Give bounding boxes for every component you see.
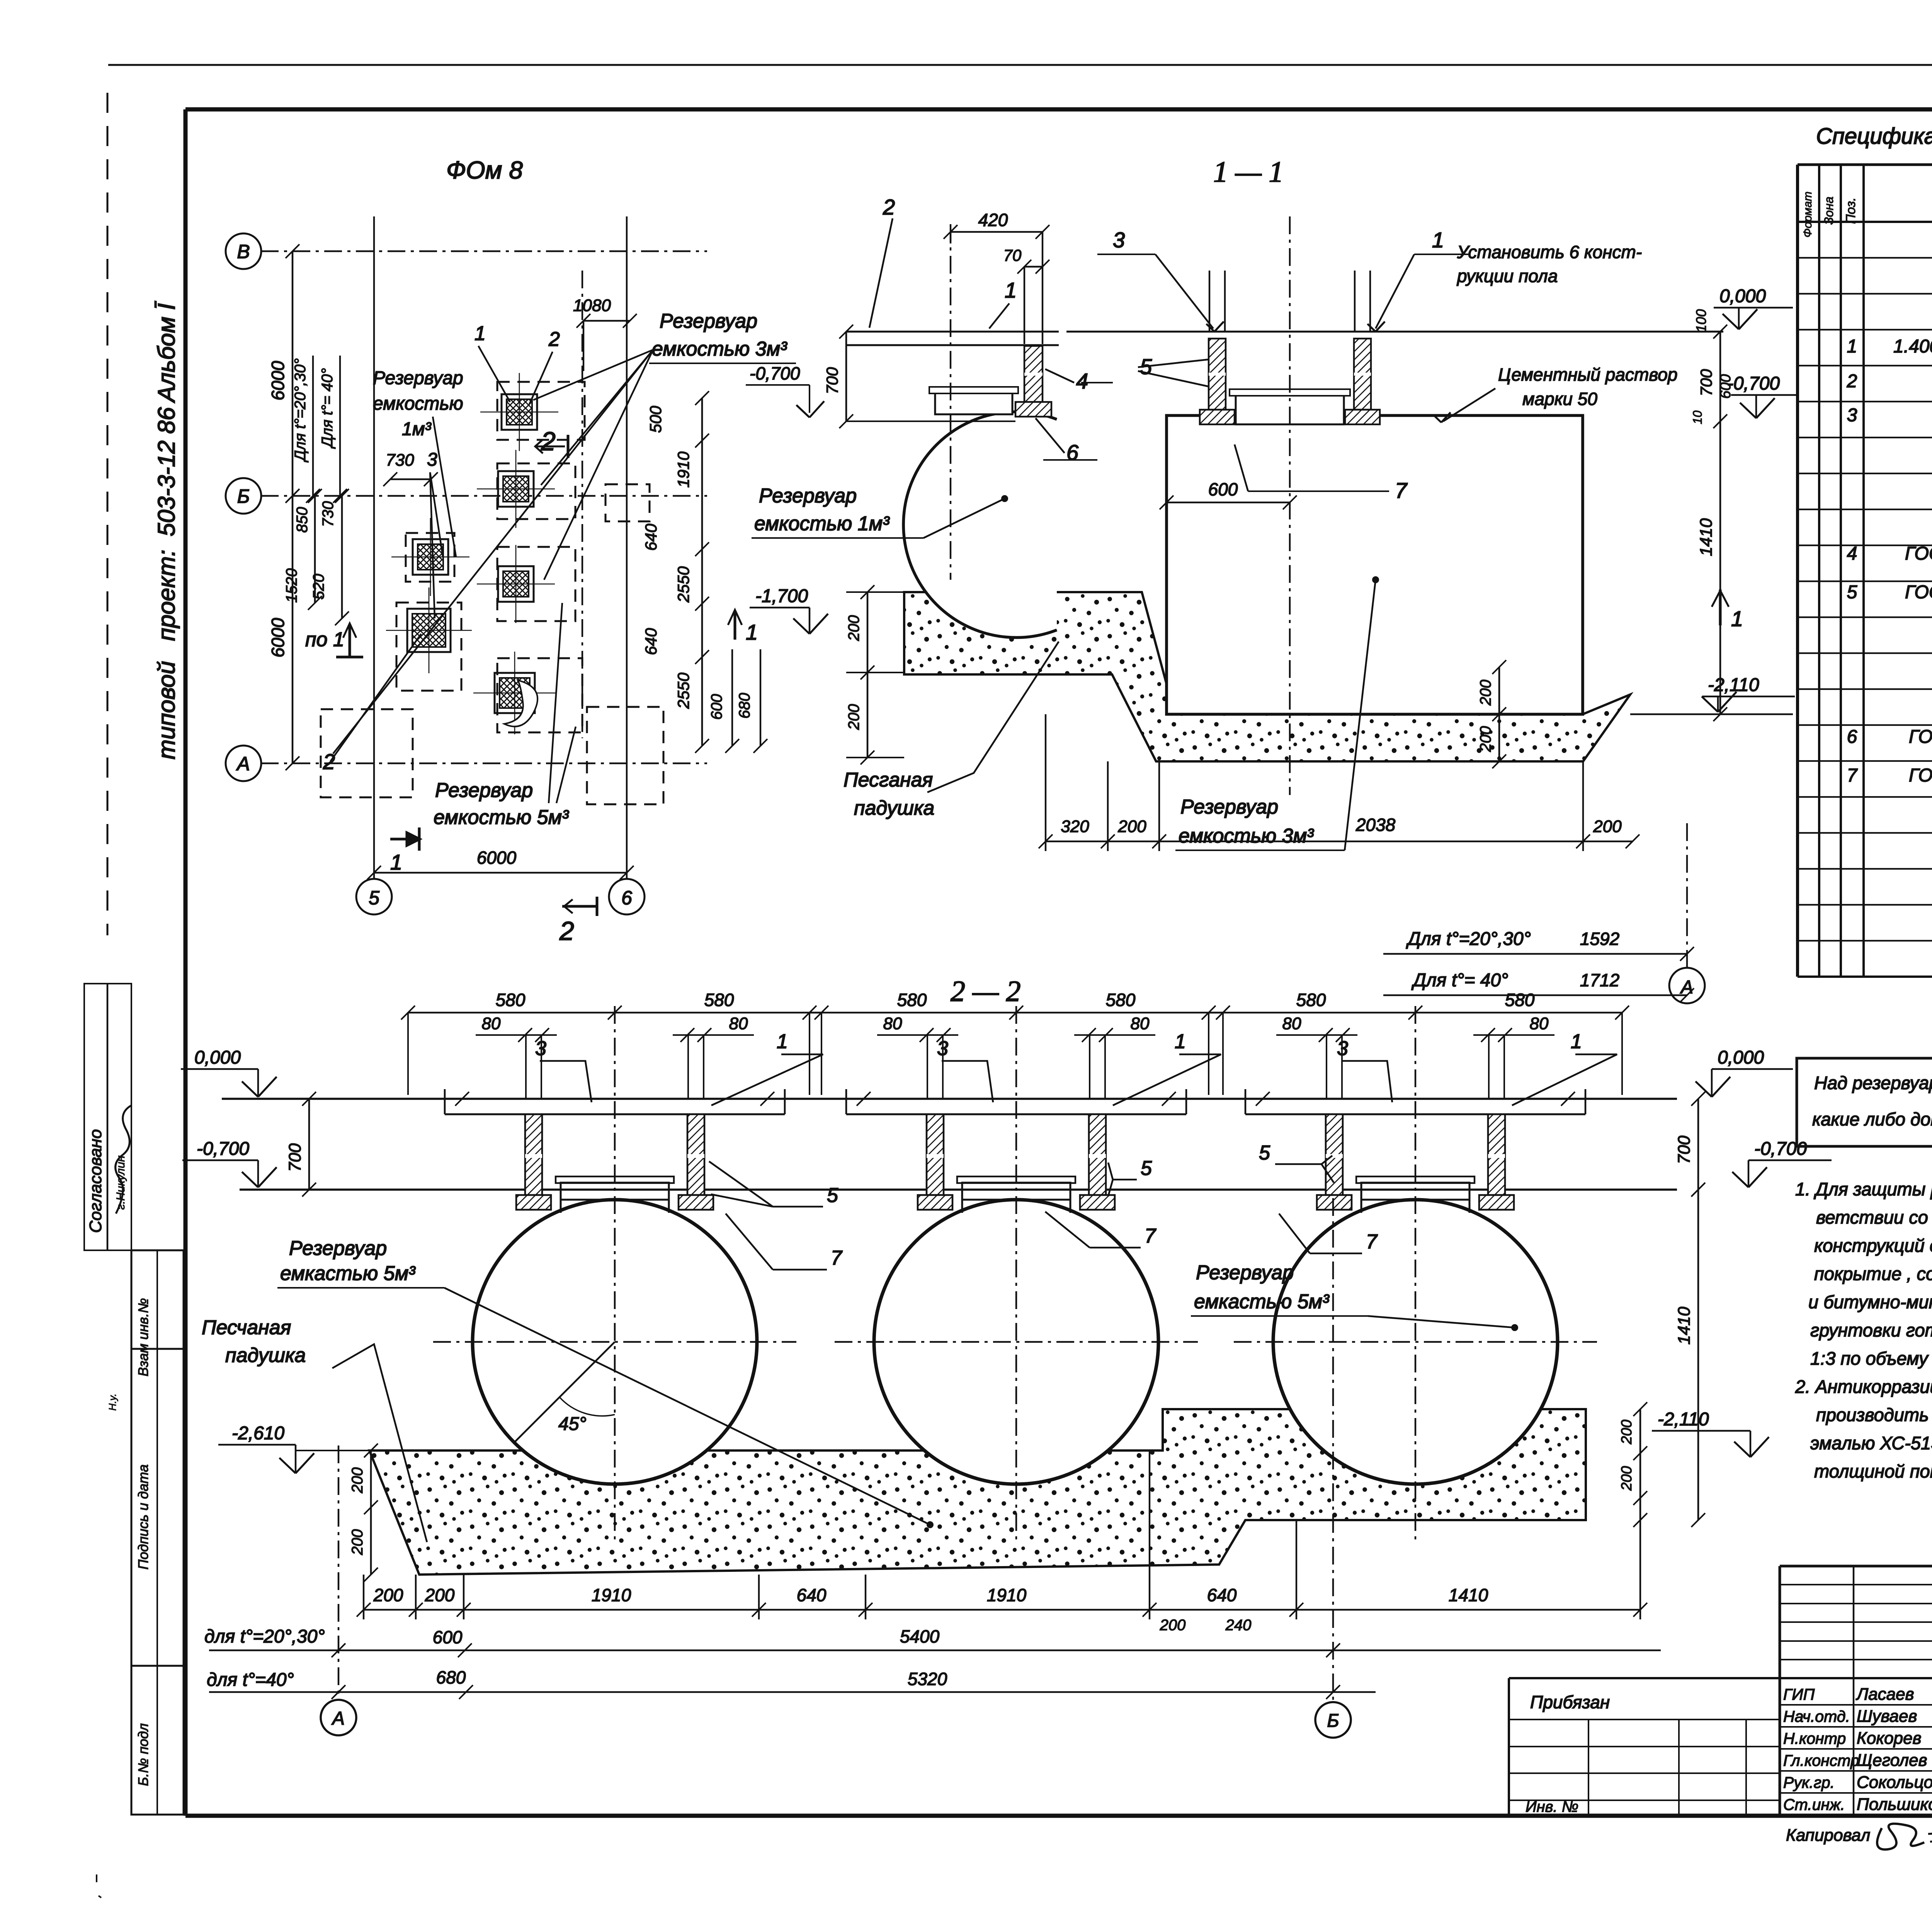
svg-text:850: 850 [294, 507, 311, 533]
svg-text:ГОСТ 8020 - 80: ГОСТ 8020 - 80 [1909, 765, 1932, 786]
svg-text:2: 2 [1847, 371, 1857, 392]
svg-text:5: 5 [369, 887, 379, 909]
svg-text:80: 80 [1530, 1014, 1549, 1033]
svg-text:Польшиков: Польшиков [1857, 1795, 1932, 1814]
svg-text:эмалью ХС-5132 (ТУ6-10-11-19-: эмалью ХС-5132 (ТУ6-10-11-19-12-79) в 3с… [1810, 1433, 1932, 1453]
svg-text:Н.контр: Н.контр [1783, 1730, 1846, 1747]
svg-text:-0,700: -0,700 [1727, 373, 1780, 394]
svg-text:2: 2 [541, 427, 556, 456]
svg-text:1592: 1592 [1580, 929, 1619, 949]
svg-text:-1,700: -1,700 [755, 586, 808, 606]
svg-text:и битумно-минеральной мастик: и битумно-минеральной мастики толщиной 3… [1808, 1292, 1932, 1312]
svg-text:Над резервуаром. установленн: Над резервуаром. установленным под земле… [1814, 1073, 1932, 1093]
svg-text:Взам инв.№: Взам инв.№ [135, 1298, 151, 1377]
svg-text:Резервуар: Резервуар [660, 310, 757, 332]
svg-text:Для t°=20°,30°: Для t°=20°,30° [1406, 929, 1531, 949]
svg-text:580: 580 [496, 990, 526, 1010]
svg-text:емкостью: емкостью [373, 393, 463, 414]
svg-text:1. Для защиты резервуаров о: 1. Для защиты резервуаров от подземной к… [1795, 1179, 1932, 1199]
svg-text:1: 1 [390, 850, 402, 874]
svg-text:3: 3 [1847, 405, 1857, 426]
svg-text:2 — 2: 2 — 2 [951, 975, 1021, 1008]
svg-text:емкастью 5м³: емкастью 5м³ [1194, 1290, 1330, 1313]
svg-text:В: В [237, 241, 250, 262]
svg-text:580: 580 [1106, 990, 1136, 1010]
svg-text:2550: 2550 [674, 566, 692, 603]
svg-text:Альбом Ī: Альбом Ī [153, 301, 180, 403]
svg-text:80: 80 [1282, 1014, 1301, 1033]
svg-text:200: 200 [1619, 1466, 1635, 1491]
svg-text:200: 200 [1117, 817, 1146, 836]
svg-text:1.400-15 вып. 1: 1.400-15 вып. 1 [1893, 336, 1932, 357]
svg-text:Рук.гр.: Рук.гр. [1783, 1774, 1835, 1791]
svg-text:7: 7 [1847, 765, 1858, 786]
svg-text:700: 700 [1697, 369, 1715, 396]
svg-text:А: А [1680, 977, 1693, 998]
svg-text:Резервуар: Резервуар [289, 1237, 387, 1260]
svg-text:70: 70 [1003, 246, 1022, 264]
svg-text:680: 680 [736, 693, 753, 719]
svg-text:2: 2 [883, 195, 895, 219]
svg-text:2. Антикорразийную защиту вн: 2. Антикорразийную защиту внутренней пов… [1795, 1376, 1932, 1397]
svg-text:Формат: Формат [1801, 191, 1814, 237]
svg-text:3: 3 [535, 1037, 546, 1060]
svg-text:Поз.: Поз. [1844, 197, 1858, 224]
svg-text:730: 730 [386, 451, 414, 470]
svg-text:420: 420 [978, 210, 1008, 230]
svg-text:Сокольцов: Сокольцов [1857, 1773, 1932, 1792]
svg-text:1: 1 [777, 1030, 788, 1053]
svg-text:2: 2 [548, 328, 560, 351]
svg-text:2038: 2038 [1355, 815, 1396, 835]
svg-text:640: 640 [797, 1585, 827, 1605]
svg-text:Резервуар: Резервуар [1180, 796, 1278, 818]
svg-text:Резервуар: Резервуар [1196, 1262, 1294, 1284]
svg-text:грунтовки готовят из битума,: грунтовки готовят из битума,растворенног… [1810, 1320, 1932, 1340]
svg-text:-0,700: -0,700 [197, 1139, 249, 1159]
svg-text:емкостью 3м³: емкостью 3м³ [652, 338, 787, 360]
svg-text:Спецификация элементов на ФО: Спецификация элементов на ФОм 8 [1816, 124, 1932, 149]
svg-text:1080: 1080 [573, 296, 611, 315]
svg-text:для t°=40°: для t°=40° [207, 1670, 294, 1690]
svg-text:Для t°=20°,30°: Для t°=20°,30° [292, 358, 309, 463]
svg-text:Щеголев: Щеголев [1857, 1751, 1927, 1770]
svg-text:320: 320 [1061, 817, 1089, 836]
svg-text:7: 7 [1366, 1231, 1378, 1253]
svg-text:200: 200 [373, 1585, 403, 1605]
svg-text:3: 3 [427, 449, 437, 470]
svg-text:730: 730 [320, 501, 337, 527]
svg-text:Н.у.: Н.у. [107, 1394, 118, 1411]
svg-text:580: 580 [897, 990, 927, 1010]
svg-text:600: 600 [708, 694, 725, 720]
svg-text:1410: 1410 [1449, 1585, 1488, 1605]
svg-text:1: 1 [1731, 606, 1743, 631]
svg-text:1м³: 1м³ [402, 419, 432, 439]
svg-text:200: 200 [1593, 817, 1622, 836]
svg-text:Б: Б [237, 485, 250, 507]
svg-text:1410: 1410 [1697, 518, 1716, 556]
svg-text:Инв. №: Инв. № [1526, 1798, 1578, 1815]
svg-text:ГОСТ 8020 - 80: ГОСТ 8020 - 80 [1909, 727, 1932, 747]
svg-text:А: А [331, 1708, 345, 1729]
svg-text:падушка: падушка [225, 1344, 306, 1367]
svg-text:3: 3 [1337, 1037, 1348, 1060]
svg-text:1: 1 [1571, 1030, 1582, 1053]
svg-text:700: 700 [286, 1143, 304, 1172]
svg-text:6000: 6000 [477, 848, 517, 868]
svg-text:640: 640 [642, 628, 660, 655]
svg-text:марки 50: марки 50 [1522, 389, 1597, 409]
svg-text:200: 200 [1477, 680, 1494, 706]
svg-text:45°: 45° [558, 1414, 587, 1434]
svg-text:200: 200 [845, 615, 862, 642]
svg-text:Прибязан: Прибязан [1530, 1692, 1610, 1712]
svg-text:1:3 по объему или 1:2 по ма: 1:3 по объему или 1:2 по массе. [1810, 1348, 1932, 1369]
svg-text:емкостью 5м³: емкостью 5м³ [434, 806, 569, 829]
svg-text:580: 580 [1296, 990, 1326, 1010]
svg-text:-2,610: -2,610 [232, 1423, 284, 1444]
svg-text:1520: 1520 [283, 569, 300, 603]
svg-text:100: 100 [1693, 309, 1709, 332]
svg-text:по 1: по 1 [305, 628, 344, 651]
svg-text:покрытие , состоящее из биту: покрытие , состоящее из битумной грунтов… [1814, 1263, 1932, 1284]
svg-text:7: 7 [831, 1247, 843, 1269]
svg-text:рукции пола: рукции пола [1456, 266, 1558, 286]
svg-text:5400: 5400 [900, 1626, 940, 1646]
svg-text:Нач.отд.: Нач.отд. [1783, 1708, 1850, 1725]
svg-text:80: 80 [729, 1014, 748, 1033]
svg-text:0,000: 0,000 [1719, 286, 1766, 306]
svg-text:2: 2 [559, 916, 574, 946]
svg-text:6: 6 [1066, 440, 1079, 465]
svg-text:Гл.констр: Гл.констр [1783, 1752, 1859, 1769]
svg-text:Зона: Зона [1822, 197, 1836, 225]
svg-text:конструкций от коррозии” при: конструкций от коррозии” применять битум… [1814, 1235, 1932, 1256]
svg-text:Согласовано: Согласовано [86, 1129, 105, 1233]
svg-text:1910: 1910 [987, 1585, 1027, 1605]
svg-text:1910: 1910 [592, 1585, 631, 1605]
svg-text:700: 700 [823, 367, 841, 394]
svg-text:Резервуар: Резервуар [435, 779, 533, 802]
svg-text:7: 7 [1395, 478, 1408, 502]
svg-text:200: 200 [349, 1529, 366, 1556]
svg-text:600: 600 [1718, 374, 1734, 398]
svg-text:1910: 1910 [674, 451, 692, 488]
svg-text:Установить 6 конст-: Установить 6 конст- [1457, 242, 1642, 262]
svg-text:Шуваев: Шуваев [1857, 1707, 1917, 1726]
svg-text:10: 10 [1690, 410, 1704, 424]
svg-text:200: 200 [1477, 726, 1494, 752]
svg-text:240: 240 [1225, 1617, 1252, 1634]
svg-text:1: 1 [746, 620, 758, 644]
svg-text:-2,110: -2,110 [1658, 1409, 1709, 1430]
svg-text:580: 580 [1505, 990, 1535, 1010]
svg-text:520: 520 [310, 574, 327, 600]
svg-text:680: 680 [436, 1667, 466, 1687]
svg-text:600: 600 [433, 1627, 463, 1647]
svg-text:-0,700: -0,700 [750, 363, 800, 383]
svg-text:ветствии со СНиП Ⅱ-28-73*„За: ветствии со СНиП Ⅱ-28-73*„Защита строите… [1816, 1207, 1932, 1227]
svg-text:1: 1 [1175, 1030, 1186, 1053]
svg-text:емкастью 5м³: емкастью 5м³ [280, 1262, 416, 1285]
svg-text:Подпись и дата: Подпись и дата [135, 1464, 151, 1570]
svg-text:Резервуар: Резервуар [759, 485, 857, 507]
svg-text:0,000: 0,000 [1718, 1047, 1764, 1068]
svg-text:6: 6 [621, 887, 632, 909]
svg-text:640: 640 [642, 523, 660, 551]
svg-text:Для t°= 40°: Для t°= 40° [319, 368, 336, 449]
svg-text:200: 200 [349, 1468, 366, 1494]
svg-text:640: 640 [1207, 1585, 1237, 1605]
svg-text:Песчаная: Песчаная [202, 1316, 291, 1339]
svg-text:Ст.инж.: Ст.инж. [1783, 1796, 1845, 1813]
svg-text:Б: Б [1327, 1711, 1339, 1731]
svg-text:2550: 2550 [674, 672, 692, 709]
svg-text:6000: 6000 [268, 618, 288, 657]
svg-text:80: 80 [1131, 1014, 1150, 1033]
svg-text:ГИП: ГИП [1783, 1685, 1815, 1703]
svg-text:емкостью 3м³: емкостью 3м³ [1179, 825, 1314, 847]
svg-text:80: 80 [482, 1014, 501, 1033]
svg-text:Для t°= 40°: Для t°= 40° [1411, 970, 1508, 991]
svg-text:падушка: падушка [854, 797, 934, 819]
svg-text:5: 5 [827, 1184, 838, 1207]
svg-text:1 — 1: 1 — 1 [1213, 156, 1284, 188]
svg-text:200: 200 [1160, 1617, 1186, 1634]
svg-text:-0,700: -0,700 [1754, 1139, 1807, 1159]
svg-text:600: 600 [1208, 479, 1238, 499]
svg-text:1: 1 [1432, 228, 1444, 252]
svg-text:580: 580 [704, 990, 734, 1010]
svg-text:5320: 5320 [908, 1669, 947, 1689]
svg-text:4: 4 [1847, 543, 1857, 564]
svg-text:г.Никулин: г.Никулин [114, 1156, 127, 1210]
svg-text:200: 200 [1619, 1420, 1635, 1444]
svg-text:3: 3 [937, 1037, 948, 1060]
svg-text:3: 3 [1113, 228, 1125, 252]
svg-text:1: 1 [474, 322, 486, 345]
svg-text:5: 5 [1259, 1142, 1270, 1164]
svg-text:ГОСТ 8020 - 80: ГОСТ 8020 - 80 [1905, 543, 1932, 564]
svg-text:А: А [236, 753, 250, 775]
svg-text:производить согласно Гост 1: производить согласно Гост 1510-76* [1816, 1405, 1932, 1425]
svg-text:6000: 6000 [268, 361, 288, 400]
svg-text:6: 6 [1847, 727, 1857, 747]
svg-text:Цементный раствор: Цементный раствор [1498, 364, 1677, 385]
svg-text:Б.№ подл: Б.№ подл [135, 1723, 151, 1786]
svg-text:толщиной покрытия 100± 5мкм: толщиной покрытия 100± 5мкм. [1814, 1461, 1932, 1481]
svg-text:4: 4 [1076, 369, 1088, 393]
svg-text:Песганая: Песганая [844, 769, 933, 791]
svg-text:5: 5 [1847, 582, 1857, 603]
svg-text:типовой проект: 503-3-12 86: типовой проект: 503-3-12 86 [153, 407, 180, 759]
svg-text:Капировал: Капировал [1786, 1826, 1870, 1845]
svg-text:80: 80 [883, 1014, 902, 1033]
svg-text:1: 1 [1005, 278, 1017, 302]
svg-text:Кокорев: Кокорев [1857, 1729, 1922, 1748]
svg-text:200: 200 [425, 1585, 455, 1605]
svg-text:ГОСТ 8020 - 80: ГОСТ 8020 - 80 [1905, 582, 1932, 603]
svg-text:1712: 1712 [1580, 970, 1619, 990]
svg-text:500: 500 [646, 405, 665, 433]
svg-text:0,000: 0,000 [194, 1047, 241, 1068]
svg-text:7: 7 [1145, 1225, 1156, 1247]
svg-text:700: 700 [1675, 1136, 1694, 1164]
svg-text:200: 200 [845, 704, 862, 730]
svg-text:-2,110: -2,110 [1708, 675, 1759, 695]
svg-text:5: 5 [1141, 1157, 1152, 1180]
svg-text:Ласаев: Ласаев [1855, 1685, 1914, 1704]
svg-text:Резервуар: Резервуар [373, 368, 463, 388]
svg-text:какие либо дополнительные наг: какие либо дополнительные нагрузки, кром… [1812, 1109, 1932, 1129]
svg-text:2: 2 [323, 749, 335, 774]
svg-text:1: 1 [1847, 336, 1857, 357]
svg-text:1410: 1410 [1675, 1307, 1694, 1345]
svg-text:для t°=20°,30°: для t°=20°,30° [204, 1626, 325, 1647]
svg-text:емкостью 1м³: емкостью 1м³ [754, 512, 890, 535]
svg-text:ФОм 8: ФОм 8 [446, 156, 523, 184]
